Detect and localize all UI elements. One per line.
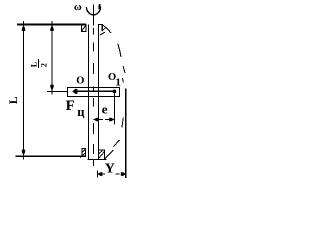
deflected shaft curve dash 7 [108,150,114,156]
dimension L/2 top arrowhead [50,25,53,31]
top-left bearing box [82,25,87,32]
svg-text:ц: ц [77,105,84,119]
svg-text:2: 2 [39,63,48,67]
deflected shaft curve dash 4 [122,78,123,83]
svg-text:O: O [76,76,84,87]
bar (slider block through shaft) [68,87,120,96]
bottom-right bearing hatch 1 [99,151,103,154]
extension tick above ceiling at L dimension [23,21,25,25]
Y left tick [97,171,99,178]
dimension e left arrowhead [94,118,99,122]
bottom-right bearing box [99,150,105,159]
shaft right edge [97,25,99,160]
label L [8,96,20,104]
dimension Y line right segment [116,173,126,175]
bottom-left bearing box [82,149,86,157]
rotation arrow arc [86,7,100,15]
dimension L/2 bottom arrowhead [50,85,53,91]
deflected shaft curve dash 6 [114,140,120,147]
deflected shaft curve dash 5 [122,118,123,128]
axis of rotation (dash-dot centerline) [93,5,95,167]
top-right bearing hatch 2 [100,32,105,35]
svg-text:e: e [102,101,108,116]
force Fc arrowhead [72,89,77,94]
centre reference line at bar level [47,90,68,92]
dimension e line [94,119,115,121]
label L/2 fraction [30,59,49,68]
point O1 (mass centre dot) [113,90,117,94]
shaft left edge [87,25,89,160]
bottom-left bearing hatch 2 [80,153,85,157]
dimension Y line left segment [98,173,105,175]
Y extension line [125,89,127,179]
extension tick above ceiling at L/2 dimension [51,21,53,25]
dimension e right arrowhead [109,118,114,122]
dimension L line [23,25,25,160]
svg-text:ω: ω [74,2,82,13]
deflected shaft curve dash 2 [118,44,121,58]
svg-text:L: L [8,96,20,104]
shaft bottom cap [88,159,107,161]
dimension L top arrowhead [22,25,25,31]
e extension line from dot [114,94,116,125]
svg-text:Y: Y [105,162,115,177]
rotation arrow head [99,4,101,9]
bottom-right bearing hatch 3 [104,156,108,160]
deflected shaft curve dash 1 [103,25,112,33]
floor line (bottom support) [16,155,87,157]
dimension Y right arrowhead [121,172,126,176]
deflected shaft curve dash 3 [123,66,125,73]
svg-text:L: L [30,62,39,67]
dimension L bottom arrowhead [22,150,25,156]
force Fc arrow shaft [77,90,115,92]
top-right bearing hatch 1 [102,28,105,31]
bottom-right bearing hatch 2 [99,152,105,159]
ceiling line (top support) [17,24,86,26]
svg-text:F: F [66,98,75,114]
bottom-left bearing hatch 1 [82,149,86,153]
top-right bearing box [98,25,102,31]
svg-text:1: 1 [115,77,121,89]
dimension Y left arrowhead [97,172,102,176]
top-left bearing hatch [82,25,86,31]
dimension L/2 line [51,25,53,95]
